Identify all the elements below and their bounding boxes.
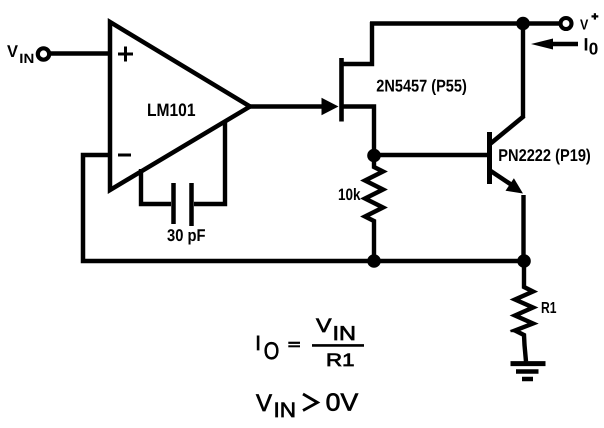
svg-text:V: V <box>580 18 589 34</box>
wire V+ top rail <box>370 21 559 26</box>
formula VIN > 0V <box>256 389 359 422</box>
formula IO = VIN / R1 <box>255 315 364 370</box>
junction node emitter/R1 <box>517 254 531 268</box>
op-amp U1 LM101 <box>110 22 250 190</box>
label VIN <box>7 42 34 66</box>
svg-text:0V: 0V <box>326 389 359 416</box>
svg-text:PN2222 (P19): PN2222 (P19) <box>498 146 591 165</box>
svg-text:0: 0 <box>589 40 599 59</box>
label V+ <box>580 13 598 33</box>
arrow IO <box>531 39 578 50</box>
svg-text:R1: R1 <box>541 300 557 317</box>
svg-text:V: V <box>316 315 332 337</box>
svg-text:IN: IN <box>19 51 34 66</box>
svg-text:O: O <box>264 338 280 365</box>
svg-text:I: I <box>584 35 589 55</box>
label IO <box>584 35 599 59</box>
wire op-amp output <box>250 104 323 108</box>
ground <box>511 364 546 379</box>
wire input <box>50 51 111 55</box>
svg-text:V: V <box>7 42 19 61</box>
resistor R1 <box>515 261 533 362</box>
svg-text:R1: R1 <box>326 350 355 370</box>
svg-text:V: V <box>256 390 272 417</box>
svg-text:LM101: LM101 <box>147 100 196 120</box>
resistor 10k <box>365 157 383 261</box>
capacitor C1 30 pF <box>141 121 225 226</box>
terminal V+ <box>561 18 572 29</box>
svg-text:IN: IN <box>333 323 357 345</box>
wire feedback (inverting input to bottom rail) <box>83 155 524 261</box>
svg-text:10k: 10k <box>338 186 361 204</box>
terminal VIN <box>38 48 49 59</box>
node A junction dot <box>367 149 381 163</box>
arrowhead into JFET gate <box>322 98 339 115</box>
svg-text:IN: IN <box>274 399 297 422</box>
transistor Q2 PN2222 <box>490 26 525 261</box>
svg-text:30 pF: 30 pF <box>167 226 206 245</box>
svg-text:2N5457 (P55): 2N5457 (P55) <box>376 77 467 96</box>
svg-text:I: I <box>255 332 261 355</box>
wire node A to Q2 base <box>374 153 487 157</box>
junction node on top rail <box>516 17 530 31</box>
stray tick near R1 <box>511 330 518 332</box>
junction node 10k bottom <box>367 254 381 268</box>
transistor Q1 JFET 2N5457 <box>342 22 375 157</box>
